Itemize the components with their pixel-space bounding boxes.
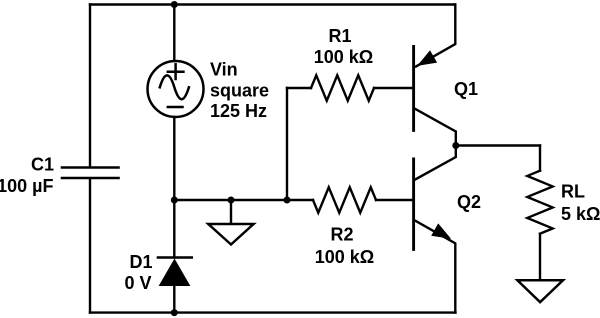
node top junction	[171, 1, 178, 8]
svg-text:R1: R1	[328, 26, 351, 46]
node bottom junction	[171, 309, 178, 316]
svg-text:Vin: Vin	[210, 60, 238, 80]
node ground junction	[228, 197, 235, 204]
svg-text:D1: D1	[129, 252, 152, 272]
resistor R1	[311, 75, 374, 100]
wire Vin bottom lead	[173, 117, 175, 200]
wire R2 resistor lead (zigzag)	[313, 187, 376, 212]
svg-text:100 µF: 100 µF	[0, 176, 54, 196]
wire RL top lead	[539, 146, 541, 171]
svg-text:0 V: 0 V	[124, 273, 151, 293]
wire ground stub	[230, 200, 232, 224]
svg-text:Q2: Q2	[457, 192, 481, 212]
wire D1 bottom lead	[173, 286, 175, 313]
wire R1 left lead	[287, 87, 311, 89]
wire D1 top lead	[173, 200, 175, 258]
svg-text:100 kΩ: 100 kΩ	[315, 247, 374, 267]
source Vin	[148, 61, 204, 117]
svg-text:square: square	[210, 81, 269, 101]
transistor Q2	[414, 146, 456, 313]
svg-text:125 Hz: 125 Hz	[210, 101, 267, 121]
svg-text:100 kΩ: 100 kΩ	[314, 47, 373, 67]
wire Vin top lead	[173, 5, 175, 62]
wire RL bottom lead	[539, 234, 541, 280]
svg-text:R2: R2	[330, 225, 353, 245]
wire output horizontal	[456, 144, 540, 146]
resistor RL	[527, 171, 552, 234]
svg-text:RL: RL	[561, 182, 585, 202]
wire left vertical upper	[89, 5, 91, 167]
diode D1	[158, 258, 192, 286]
wire mid horizontal	[174, 199, 313, 201]
ground near Vin	[208, 224, 253, 245]
node output junction	[452, 142, 459, 149]
node mid junction	[171, 197, 178, 204]
wire R1 branch vertical	[286, 88, 288, 200]
ground below RL	[517, 280, 563, 302]
transistor Q1	[414, 5, 456, 146]
svg-text:Q1: Q1	[454, 79, 478, 99]
wire top rail	[90, 3, 455, 5]
wire R2 right lead	[376, 199, 412, 201]
capacitor C1	[62, 168, 119, 179]
svg-text:5 kΩ: 5 kΩ	[561, 204, 600, 224]
wire left vertical lower	[89, 179, 91, 313]
node R1 branch junction	[284, 197, 291, 204]
svg-text:C1: C1	[31, 155, 54, 175]
wire R1 right lead	[374, 87, 412, 89]
wire bottom rail	[90, 311, 456, 313]
